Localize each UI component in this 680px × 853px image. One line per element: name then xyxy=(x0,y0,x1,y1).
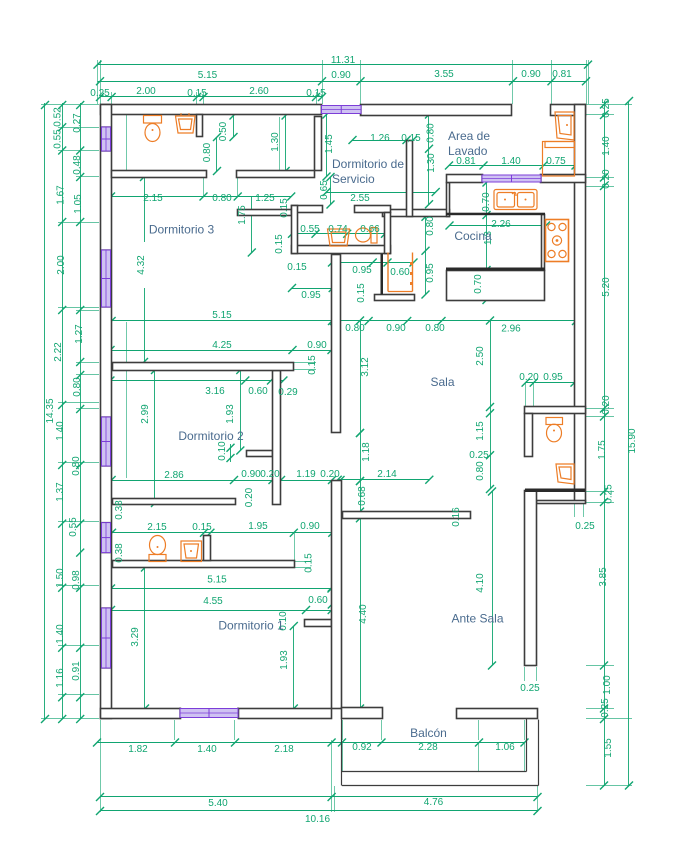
svg-text:0.15: 0.15 xyxy=(279,198,290,218)
svg-text:0.60: 0.60 xyxy=(308,595,328,606)
svg-text:0.15: 0.15 xyxy=(356,283,367,303)
svg-text:2.00: 2.00 xyxy=(136,86,156,97)
svg-text:0.70: 0.70 xyxy=(473,274,484,294)
svg-text:1.40: 1.40 xyxy=(601,136,612,156)
svg-text:2.50: 2.50 xyxy=(475,346,486,366)
svg-text:0.20: 0.20 xyxy=(519,372,539,383)
svg-text:0.25: 0.25 xyxy=(600,698,611,718)
svg-text:0.98: 0.98 xyxy=(71,570,82,590)
svg-text:0.95: 0.95 xyxy=(425,263,436,283)
svg-text:Lavado: Lavado xyxy=(448,144,488,158)
svg-text:0.55: 0.55 xyxy=(68,517,79,537)
svg-text:2.15: 2.15 xyxy=(143,193,163,204)
svg-text:0.75: 0.75 xyxy=(546,156,566,167)
svg-text:0.90: 0.90 xyxy=(331,70,351,81)
svg-text:Dormitorio de: Dormitorio de xyxy=(332,157,404,171)
svg-text:0.20: 0.20 xyxy=(601,169,612,189)
svg-text:1.93: 1.93 xyxy=(279,650,290,670)
svg-text:1.40: 1.40 xyxy=(501,156,521,167)
svg-text:1.40: 1.40 xyxy=(55,421,66,441)
svg-text:0.55: 0.55 xyxy=(300,224,320,235)
svg-text:2.26: 2.26 xyxy=(491,219,511,230)
svg-text:0.20: 0.20 xyxy=(244,487,255,507)
svg-text:0.38: 0.38 xyxy=(114,543,125,563)
svg-text:1.00: 1.00 xyxy=(602,675,613,695)
svg-text:0.70: 0.70 xyxy=(481,192,492,212)
svg-text:Servicio: Servicio xyxy=(332,172,375,186)
svg-text:1.55: 1.55 xyxy=(603,738,614,758)
svg-text:1.75: 1.75 xyxy=(597,440,608,460)
svg-text:0.80: 0.80 xyxy=(425,323,445,334)
svg-text:3.12: 3.12 xyxy=(360,357,371,377)
svg-text:4.76: 4.76 xyxy=(424,797,444,808)
svg-text:0.91: 0.91 xyxy=(71,661,82,681)
svg-text:1.15: 1.15 xyxy=(475,421,486,441)
svg-text:1.95: 1.95 xyxy=(248,521,268,532)
svg-text:3.16: 3.16 xyxy=(205,386,225,397)
svg-text:0,15: 0,15 xyxy=(187,88,207,99)
svg-text:0.29: 0.29 xyxy=(278,387,298,398)
svg-text:1.75: 1.75 xyxy=(237,205,248,225)
svg-text:1.26: 1.26 xyxy=(370,133,390,144)
svg-text:0.65: 0.65 xyxy=(319,180,330,200)
svg-text:4.40: 4.40 xyxy=(358,604,369,624)
svg-text:Sala: Sala xyxy=(430,375,454,389)
svg-text:2.60: 2.60 xyxy=(249,86,269,97)
svg-text:0.81: 0.81 xyxy=(552,69,572,80)
svg-text:1.06: 1.06 xyxy=(495,742,515,753)
svg-text:0.68: 0.68 xyxy=(357,486,368,506)
svg-text:0.15: 0.15 xyxy=(304,553,315,573)
svg-text:5.15: 5.15 xyxy=(207,575,227,586)
svg-text:0.20: 0.20 xyxy=(320,469,340,480)
svg-text:0.95: 0.95 xyxy=(301,290,321,301)
svg-text:Cocina: Cocina xyxy=(454,229,492,243)
svg-text:1.27: 1.27 xyxy=(74,324,85,344)
svg-text:0.80: 0.80 xyxy=(72,377,83,397)
svg-text:0.25: 0.25 xyxy=(520,683,540,694)
svg-text:2.96: 2.96 xyxy=(501,324,521,335)
svg-text:0.60: 0.60 xyxy=(248,386,268,397)
svg-text:3.55: 3.55 xyxy=(434,69,454,80)
svg-text:1.19: 1.19 xyxy=(296,469,316,480)
svg-text:2.00: 2.00 xyxy=(56,255,67,275)
svg-text:0.95: 0.95 xyxy=(352,265,372,276)
svg-text:0.48: 0.48 xyxy=(72,155,83,175)
svg-text:0.74: 0.74 xyxy=(328,224,348,235)
svg-text:0.80: 0.80 xyxy=(345,323,365,334)
svg-text:11.31: 11.31 xyxy=(331,55,356,66)
svg-text:5.40: 5.40 xyxy=(208,798,228,809)
svg-text:2.28: 2.28 xyxy=(418,742,438,753)
svg-text:Balcón: Balcón xyxy=(410,726,447,740)
svg-text:4.25: 4.25 xyxy=(212,340,232,351)
svg-text:4.10: 4.10 xyxy=(475,573,486,593)
svg-text:Dormitorio 2: Dormitorio 2 xyxy=(178,429,244,443)
svg-text:5.20: 5.20 xyxy=(601,277,612,297)
svg-text:1.50: 1.50 xyxy=(55,568,66,588)
svg-text:0.15: 0.15 xyxy=(307,355,318,375)
svg-text:0.15: 0.15 xyxy=(192,522,212,533)
svg-text:0.25: 0.25 xyxy=(90,88,110,99)
svg-text:0.90: 0.90 xyxy=(521,69,541,80)
svg-text:0.80: 0.80 xyxy=(475,461,486,481)
svg-text:2.86: 2.86 xyxy=(164,470,184,481)
svg-text:1.40: 1.40 xyxy=(55,624,66,644)
svg-text:0.95: 0.95 xyxy=(543,372,563,383)
svg-text:0.80: 0.80 xyxy=(202,142,213,162)
svg-text:1.30: 1.30 xyxy=(270,132,281,152)
svg-text:1.67: 1.67 xyxy=(56,185,67,205)
svg-text:0.60: 0.60 xyxy=(390,267,410,278)
svg-text:1.82: 1.82 xyxy=(128,744,148,755)
svg-text:0.80: 0.80 xyxy=(212,193,232,204)
svg-text:0.92: 0.92 xyxy=(352,742,372,753)
svg-text:0.50: 0.50 xyxy=(218,121,229,141)
svg-text:2.14: 2.14 xyxy=(377,469,397,480)
svg-text:0.25: 0.25 xyxy=(575,521,595,532)
svg-text:0.15: 0.15 xyxy=(274,234,285,254)
svg-text:15.90: 15.90 xyxy=(627,428,638,453)
svg-text:4.55: 4.55 xyxy=(203,596,223,607)
svg-text:14.35: 14.35 xyxy=(45,398,56,423)
svg-text:2.18: 2.18 xyxy=(274,744,294,755)
svg-text:0.80: 0.80 xyxy=(426,123,437,143)
svg-text:0,15: 0,15 xyxy=(306,88,326,99)
svg-text:Area de: Area de xyxy=(448,129,490,143)
svg-text:1.40: 1.40 xyxy=(197,744,217,755)
svg-text:5.15: 5.15 xyxy=(198,70,218,81)
svg-text:1.93: 1.93 xyxy=(225,404,236,424)
svg-text:0.15: 0.15 xyxy=(287,262,307,273)
svg-text:1.18: 1.18 xyxy=(361,442,372,462)
svg-text:3.85: 3.85 xyxy=(598,567,609,587)
svg-text:0.10: 0.10 xyxy=(217,441,228,461)
svg-text:1.45: 1.45 xyxy=(324,134,335,154)
svg-text:0.52: 0.52 xyxy=(53,107,64,127)
svg-text:0.90: 0.90 xyxy=(386,323,406,334)
svg-text:4.32: 4.32 xyxy=(136,255,147,275)
svg-text:0.16: 0.16 xyxy=(451,507,462,527)
svg-text:0.38: 0.38 xyxy=(114,500,125,520)
svg-text:0.27: 0.27 xyxy=(72,113,83,133)
svg-text:1.05: 1.05 xyxy=(73,194,84,214)
svg-text:5.15: 5.15 xyxy=(212,310,232,321)
svg-text:0.20: 0.20 xyxy=(601,395,612,415)
svg-text:0.66: 0.66 xyxy=(360,224,380,235)
svg-text:2.55: 2.55 xyxy=(350,193,370,204)
svg-text:2.15: 2.15 xyxy=(147,522,167,533)
svg-text:0.25: 0.25 xyxy=(601,98,612,118)
svg-text:Dormitorio 1: Dormitorio 1 xyxy=(218,619,284,633)
svg-text:0.90: 0.90 xyxy=(241,469,261,480)
svg-text:2.22: 2.22 xyxy=(53,342,64,362)
svg-text:1.16: 1.16 xyxy=(55,668,66,688)
svg-text:3.29: 3.29 xyxy=(130,627,141,647)
svg-text:0,15: 0,15 xyxy=(401,133,421,144)
svg-text:0.90: 0.90 xyxy=(300,521,320,532)
svg-text:0.25: 0.25 xyxy=(604,484,615,504)
svg-text:0.90: 0.90 xyxy=(307,340,327,351)
svg-text:1.30: 1.30 xyxy=(426,153,437,173)
svg-text:0.25: 0.25 xyxy=(469,450,489,461)
svg-text:1.25: 1.25 xyxy=(255,193,275,204)
svg-text:10.16: 10.16 xyxy=(305,814,330,825)
svg-text:Dormitorio 3: Dormitorio 3 xyxy=(149,223,215,237)
svg-text:0.20: 0.20 xyxy=(260,469,280,480)
svg-text:2.99: 2.99 xyxy=(140,404,151,424)
svg-text:1.37: 1.37 xyxy=(55,482,66,502)
svg-text:0.55: 0.55 xyxy=(53,129,64,149)
svg-text:0.80: 0.80 xyxy=(71,456,82,476)
svg-text:0.80: 0.80 xyxy=(425,216,436,236)
svg-text:Ante Sala: Ante Sala xyxy=(451,612,503,626)
